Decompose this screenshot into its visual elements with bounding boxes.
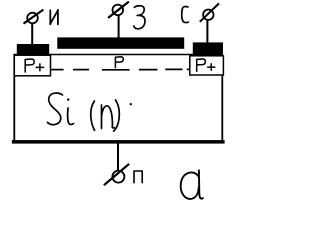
p+ drain region (right) — [190, 56, 224, 75]
induced p-channel dashed line — [51, 68, 190, 70]
terminal З (gate) — [108, 2, 129, 18]
label П — [134, 171, 142, 183]
label P+ (drain) — [197, 59, 215, 71]
label P+ (source) — [25, 59, 43, 72]
label Si(n) — [47, 93, 119, 131]
terminal И (source) — [24, 10, 44, 24]
wire gate lead — [118, 15, 120, 39]
label С — [182, 6, 189, 22]
gate metal electrode — [57, 37, 184, 48]
label И — [50, 10, 58, 25]
source metal contact — [17, 44, 49, 54]
terminal П (substrate) — [104, 164, 129, 185]
p+ source region (left) — [14, 55, 50, 76]
terminal С (drain) — [200, 3, 219, 21]
stray dot — [130, 103, 132, 105]
wire source lead — [31, 23, 33, 44]
label Р (channel) — [115, 57, 123, 68]
figure label а — [181, 170, 203, 199]
wire substrate lead — [117, 142, 119, 171]
label З — [134, 6, 145, 29]
drain metal contact — [193, 42, 223, 55]
wire drain lead — [206, 20, 208, 44]
substrate body Si(n) outline — [12, 54, 225, 144]
